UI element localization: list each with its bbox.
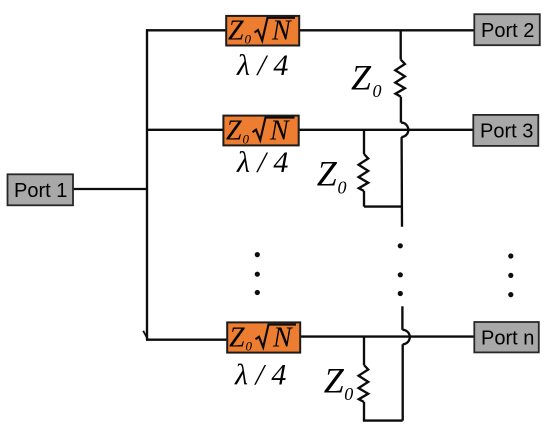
wire: branch 2 right segment (transformer 2 to Port 3) <box>298 129 474 131</box>
wire: branch 3 right segment (transformer 3 to Port n) <box>299 335 475 337</box>
svg-text:Port 1: Port 1 <box>14 180 67 202</box>
svg-text:N: N <box>272 323 293 354</box>
transformer T3: quarter-wave line Z0*sqrt(N) box <box>227 322 300 353</box>
wire: R3 bottom lead <box>363 402 365 421</box>
svg-text:λ / 4: λ / 4 <box>234 359 286 392</box>
wire: isolation bus top segment (node at branch 1 down to R1) <box>400 30 402 59</box>
resistor R3 (Z0, on port n branch) <box>359 365 369 402</box>
svg-text:Z: Z <box>317 154 338 194</box>
wire: branch 1 left segment (bus to transformer 1) <box>146 29 227 31</box>
wire: R3 stub from branch n <box>363 337 365 365</box>
svg-text:Port n: Port n <box>481 328 534 350</box>
svg-text:N: N <box>269 115 290 146</box>
wire: branch 3 left segment (bus to transformer 3) <box>146 339 228 341</box>
wire: R2 stub from branch 2 <box>363 130 365 154</box>
svg-text:0: 0 <box>338 177 347 197</box>
wire: R2 bottom lead <box>363 191 365 207</box>
wire: hop (jump) over Port n branch line <box>402 330 409 345</box>
resistor R2 (Z0, between port 3 branch and isolation bus) <box>359 154 369 191</box>
label: Z0 value of resistor R2 <box>317 154 347 198</box>
node: ellipsis dots right column (more ports) <box>508 253 513 297</box>
wire: left distribution bus vertical <box>146 29 148 340</box>
label: Z0 value of resistor R1 <box>351 57 382 100</box>
wire: isolation bus bottom segment down to R3 return <box>402 344 404 420</box>
svg-text:0: 0 <box>245 32 252 47</box>
wire: isolation bus resuming below dots to hop over branch n <box>401 306 403 330</box>
transformer T2: quarter-wave line Z0*sqrt(N) box <box>223 115 298 146</box>
svg-text:0: 0 <box>243 131 250 146</box>
svg-text:Port 2: Port 2 <box>481 20 534 42</box>
wire: isolation bus from R1 down to hop over branch 2 <box>400 97 402 123</box>
svg-text:0: 0 <box>373 81 382 101</box>
resistor R1 (Z0, between port 2 and port 3 branches) <box>395 60 405 97</box>
svg-text:N: N <box>271 16 292 47</box>
port n terminal box <box>474 322 539 352</box>
wire: R3 return to isolation bus <box>363 419 403 421</box>
port 1 terminal box <box>8 174 74 205</box>
node: ellipsis dots left column (more branches) <box>255 252 260 295</box>
svg-text:Z: Z <box>228 16 244 47</box>
svg-text:Z: Z <box>324 360 345 400</box>
wire: hop (jump) over Port 3 branch line <box>401 123 408 138</box>
svg-text:Z: Z <box>229 323 245 354</box>
label: Z0 value of resistor R3 <box>324 360 354 404</box>
wire: branch 1 right segment (transformer 1 to Port 2) <box>298 29 475 31</box>
wire: Port 1 lead <box>73 188 147 190</box>
transformer T1: quarter-wave line Z0*sqrt(N) box <box>226 16 299 47</box>
svg-text:0: 0 <box>344 384 353 404</box>
node: ellipsis dots on isolation bus <box>398 243 403 296</box>
svg-text:λ / 4: λ / 4 <box>236 49 288 82</box>
wire: isolation bus from hop down to dots break <box>400 137 403 227</box>
svg-text:Port 3: Port 3 <box>480 121 533 143</box>
svg-text:Z: Z <box>351 57 372 97</box>
svg-text:Z: Z <box>226 115 242 146</box>
wire: R2 return to isolation bus <box>364 205 402 207</box>
svg-text:0: 0 <box>246 338 253 353</box>
wire: branch 2 left segment (bus to transformer 2) <box>146 129 224 131</box>
wire: corner overshoot tick at bottom of left bus <box>143 331 148 340</box>
port 3 terminal box <box>473 115 538 146</box>
port 2 terminal box <box>474 14 540 45</box>
svg-text:λ / 4: λ / 4 <box>236 146 288 179</box>
